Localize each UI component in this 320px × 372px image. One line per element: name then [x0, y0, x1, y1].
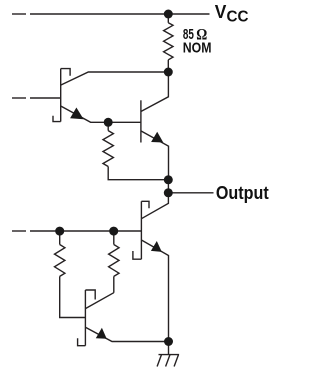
- junction dot VCC rail: [164, 10, 173, 19]
- transistor Q3 base top hook: [141, 201, 149, 208]
- wire output node vertical: [167, 180, 169, 193]
- transistor Q4 base top hook: [85, 290, 95, 300]
- junction dot lower input / R3: [55, 227, 64, 236]
- transistor Q1 base top hook: [61, 69, 70, 76]
- transistor Q4 emitter lead: [85, 327, 168, 341]
- resistor R3: [55, 231, 86, 318]
- wire VCC rail: [30, 13, 210, 15]
- wire Output lead: [168, 192, 213, 194]
- transistor Q4 base bottom hook: [78, 338, 86, 346]
- wire VCC rail dashed stub: [12, 13, 26, 15]
- transistor Q2 base bar: [140, 100, 142, 142]
- junction dot ground node: [164, 337, 173, 346]
- svg-text:Output: Output: [216, 182, 269, 203]
- transistor Q1 emitter arrow: [70, 108, 84, 120]
- transistor Q2 emitter lead: [141, 131, 169, 180]
- transistor Q3 emitter arrow: [151, 241, 162, 252]
- wire Q1 base dashed stub: [12, 97, 26, 99]
- transistor Q1 base bar: [60, 69, 62, 122]
- junction dot Output node: [164, 188, 173, 197]
- svg-text:CC: CC: [227, 8, 249, 25]
- wire ground lead: [168, 342, 170, 355]
- wire lower input dashed stub: [12, 230, 26, 232]
- junction dot below R1: [164, 68, 173, 77]
- junction dot lower input / R4: [109, 227, 118, 236]
- svg-text:V: V: [215, 2, 227, 22]
- resistor R4: [109, 231, 119, 293]
- wire Output node down to Q3 collector: [141, 193, 168, 219]
- junction dot node A (Q1 emitter / Q2 base): [104, 118, 113, 127]
- resistor R2: [103, 122, 168, 179]
- transistor Q1 base bottom hook: [53, 116, 61, 122]
- transistor Q2 emitter arrow: [151, 132, 163, 143]
- transistor Q4 base bar: [84, 290, 86, 346]
- transistor Q3 base bar: [140, 201, 142, 259]
- transistor Q1 collector lead: [61, 72, 169, 85]
- wire lower input base lead: [30, 230, 141, 232]
- wire node below R1 down to Q2 collector: [141, 72, 169, 112]
- transistor Q3 emitter lead: [141, 240, 168, 342]
- wire Q1 base lead: [30, 97, 61, 99]
- transistor Q4 collector lead: [85, 293, 113, 309]
- resistor R1 85 ohm: [164, 14, 173, 72]
- wire Q2 base lead from node A: [108, 121, 141, 123]
- junction dot R2 bottom / Q2 emitter: [164, 175, 173, 184]
- transistor Q4 emitter arrow: [96, 328, 107, 339]
- svg-text:NOM: NOM: [183, 41, 212, 57]
- transistor Q3 base bottom hook: [133, 251, 142, 259]
- transistor Q1 emitter lead: [61, 106, 108, 122]
- ground symbol: [157, 355, 179, 367]
